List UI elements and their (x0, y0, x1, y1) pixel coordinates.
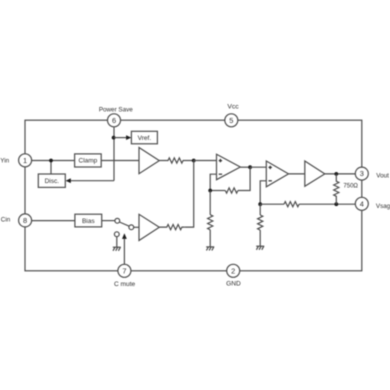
outer IC boundary rectangle (25, 120, 362, 271)
resistor R1 after A1 (159, 158, 193, 163)
wire: Clamp output to amp A1 input (101, 160, 139, 162)
Vref box (131, 131, 157, 144)
Bias box (75, 214, 102, 227)
U2 minus sign (219, 173, 222, 175)
ground under R5 (206, 247, 214, 251)
svg-text:GND: GND (226, 281, 241, 288)
svg-text:Vout: Vout (376, 172, 389, 179)
resistor R4 U3 feedback (284, 202, 299, 207)
arrow into Vref box (126, 135, 131, 140)
node Vout junction dot (334, 172, 338, 176)
svg-text:Yin: Yin (0, 157, 9, 164)
switch lever wire (119, 222, 129, 226)
wire: R4 to Vsag pin4 (299, 203, 355, 205)
svg-text:C mute: C mute (114, 281, 136, 288)
pin 3 circle (355, 167, 368, 180)
wire: node F3 to resistor R4 (260, 203, 284, 205)
pin 8 circle (19, 214, 32, 227)
Disc box (38, 174, 65, 187)
node O2 junction dot (248, 165, 252, 169)
svg-text:Cin: Cin (1, 217, 11, 224)
resistor R5 to ground (208, 215, 213, 230)
wire: node PS to Vref arrow (114, 137, 127, 139)
resistor R2 after A2 (159, 225, 185, 230)
wire: R6 to ground (259, 230, 261, 246)
wire: Yin pin1 to Clamp input (32, 160, 75, 162)
wire: node M to op-amp U2 + input (194, 160, 217, 162)
wire: R3 to node F2 and up to U2 - input (210, 190, 225, 192)
pin 2 circle (227, 264, 240, 277)
wire: node M down to chroma path corner (185, 161, 194, 228)
wire: U3 - input feedback down to node F3 (260, 181, 266, 204)
U3 minus sign (269, 180, 272, 182)
switch contact circle A (115, 218, 120, 223)
arrow into Disc box (66, 178, 71, 183)
pin 6 circle (108, 114, 121, 127)
svg-text:3: 3 (360, 169, 364, 178)
wire: Bias output to switch contact (102, 220, 115, 222)
svg-text:2: 2 (231, 266, 235, 275)
svg-text:6: 6 (112, 116, 116, 125)
wire: node A down to Disc input (50, 161, 52, 175)
switch contact circle B (129, 225, 134, 230)
U2 plus sign (219, 159, 222, 162)
buffer U4 triangle (305, 161, 325, 186)
svg-text:5: 5 (229, 116, 233, 125)
svg-text:750Ω: 750Ω (343, 184, 358, 190)
U3 plus sign (269, 166, 272, 169)
wire: node F3 down to resistor R6 (259, 204, 261, 215)
wire: U4 output to Vout pin3 (325, 173, 356, 175)
pin 1 circle (19, 154, 32, 167)
wire: U3 output to buffer U4 (289, 173, 305, 175)
pin 5 circle (225, 114, 238, 127)
resistor R3 U2 feedback (225, 188, 238, 193)
svg-text:Bias: Bias (82, 218, 95, 225)
wire: Cin pin8 to Bias input (31, 220, 75, 222)
op-amp U3 triangle (266, 161, 288, 187)
wire: contact C to ground (116, 237, 118, 248)
svg-text:7: 7 (122, 266, 126, 275)
wire: node F2 down to resistor R5 (209, 191, 211, 215)
resistor R6 to ground (258, 215, 263, 230)
wire: U2 feedback from output down (238, 167, 250, 190)
svg-text:8: 8 (23, 216, 27, 225)
amp A1 triangle (139, 148, 159, 174)
wire: U2 output to node O2 (240, 166, 250, 168)
node PS junction dot (112, 136, 116, 140)
ground under R6 (256, 246, 264, 250)
amp A2 triangle (139, 214, 159, 240)
wire: Power Save pin6 down to node PS (113, 127, 115, 181)
pin 4 circle (355, 197, 368, 210)
wire: switch B to amp A2 input (134, 226, 139, 228)
switch contact circle C (to ground) (114, 232, 119, 237)
svg-text:1: 1 (23, 156, 27, 165)
svg-text:Clamp: Clamp (79, 158, 98, 165)
svg-text:Disc.: Disc. (45, 178, 60, 185)
svg-text:Vref.: Vref. (138, 135, 152, 142)
wire: R5 to ground (209, 230, 211, 247)
svg-text:Power Save: Power Save (99, 107, 133, 114)
node F3 junction dot (258, 202, 262, 206)
resistor R7 750ohm vertical (334, 174, 339, 204)
node M junction dot (192, 159, 196, 163)
svg-text:Vsag: Vsag (376, 203, 390, 210)
wire: power save line to Disc arrow (71, 180, 115, 182)
op-amp U2 triangle (217, 154, 241, 180)
ground under switch (113, 247, 121, 251)
wire: C mute pin7 up to switch arrow (123, 239, 125, 264)
node Vsag junction dot (334, 202, 338, 206)
arrow up from pin7 (122, 233, 127, 239)
Clamp box (75, 154, 102, 167)
svg-text:4: 4 (360, 199, 364, 208)
node A junction dot (49, 159, 53, 163)
svg-text:Vcc: Vcc (227, 104, 239, 111)
node F2 junction dot (208, 189, 212, 193)
wire: node O2 to op-amp U3 + input (250, 166, 266, 168)
pin 7 circle (118, 264, 131, 277)
